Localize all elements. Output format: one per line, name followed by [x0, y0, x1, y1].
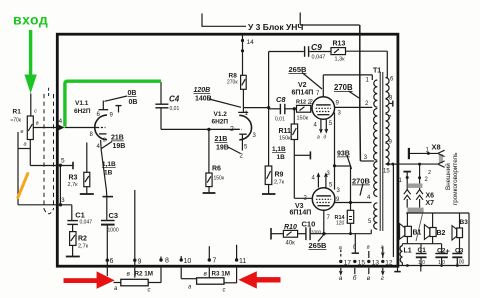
svg-text:0,01: 0,01 — [170, 106, 180, 112]
svg-text:С2: С2 — [437, 248, 446, 255]
svg-text:19В: 19В — [113, 143, 126, 150]
svg-text:С1: С1 — [75, 211, 85, 220]
svg-text:в: в — [204, 271, 208, 278]
svg-text:с: с — [34, 109, 37, 115]
svg-text:14: 14 — [247, 39, 255, 46]
svg-text:2: 2 — [428, 170, 431, 176]
svg-text:R2 1М: R2 1М — [135, 271, 154, 278]
svg-text:2,7к: 2,7к — [68, 182, 79, 188]
svg-text:R9: R9 — [275, 172, 284, 179]
svg-text:150к: 150к — [214, 176, 225, 182]
svg-text:120: 120 — [336, 221, 345, 227]
svg-text:15: 15 — [383, 169, 390, 175]
svg-text:с: с — [148, 288, 151, 294]
svg-text:Х6: Х6 — [426, 193, 435, 200]
svg-text:150к: 150к — [297, 116, 309, 122]
svg-text:21В: 21В — [111, 135, 124, 142]
svg-text:Т1: Т1 — [373, 68, 381, 75]
svg-text:7: 7 — [213, 258, 217, 265]
svg-text:8: 8 — [165, 258, 169, 265]
svg-text:270В: 270В — [352, 177, 371, 186]
svg-text:3300: 3300 — [311, 230, 322, 235]
svg-text:140В: 140В — [195, 96, 212, 103]
svg-text:270В: 270В — [334, 83, 353, 92]
svg-text:R3 1М: R3 1М — [212, 271, 231, 278]
svg-text:6Н2П: 6Н2П — [74, 108, 91, 115]
svg-text:0,047: 0,047 — [312, 55, 326, 61]
svg-text:2: 2 — [230, 126, 234, 133]
svg-text:6П14П: 6П14П — [290, 210, 312, 217]
svg-text:В1: В1 — [413, 230, 422, 237]
svg-text:6П14П: 6П14П — [292, 90, 314, 97]
svg-text:15: 15 — [358, 260, 366, 267]
svg-text:1,3к: 1,3к — [335, 57, 346, 63]
svg-text:+: + — [446, 249, 450, 256]
svg-text:а: а — [339, 275, 343, 282]
svg-text:1,0: 1,0 — [418, 260, 425, 266]
svg-text:270к: 270к — [227, 80, 238, 86]
svg-text:а: а — [317, 135, 320, 141]
svg-text:0,047: 0,047 — [80, 220, 93, 226]
svg-text:Х8: Х8 — [432, 143, 441, 152]
svg-text:6Н2П: 6Н2П — [212, 119, 229, 126]
svg-text:R12: R12 — [296, 100, 306, 106]
svg-text:в: в — [36, 121, 39, 127]
svg-text:1В: 1В — [277, 154, 286, 161]
svg-text:R10: R10 — [284, 224, 297, 231]
svg-text:12: 12 — [385, 260, 393, 267]
svg-text:≈70к: ≈70к — [11, 118, 22, 124]
svg-text:С9: С9 — [311, 42, 322, 52]
svg-text:б: б — [353, 274, 357, 282]
svg-text:С1: С1 — [418, 247, 427, 254]
svg-text:вход: вход — [13, 12, 48, 28]
svg-text:19В: 19В — [216, 145, 229, 152]
svg-text:R11: R11 — [279, 128, 292, 135]
svg-text:5: 5 — [61, 158, 65, 165]
svg-text:д: д — [324, 135, 327, 141]
svg-text:13: 13 — [372, 260, 380, 267]
svg-text:громкоговоритель: громкоговоритель — [452, 152, 459, 205]
svg-text:В2: В2 — [437, 230, 446, 237]
svg-text:V2: V2 — [298, 82, 307, 89]
svg-text:1000: 1000 — [108, 228, 119, 234]
svg-text:R13: R13 — [333, 41, 346, 48]
svg-text:6: 6 — [110, 258, 114, 265]
svg-text:1В: 1В — [104, 170, 113, 177]
svg-text:У 3 Блок УНЧ: У 3 Блок УНЧ — [248, 22, 303, 32]
svg-text:R3: R3 — [69, 175, 78, 182]
svg-text:2,7к: 2,7к — [78, 244, 89, 250]
svg-text:С3: С3 — [455, 248, 464, 255]
svg-text:17: 17 — [344, 260, 352, 267]
svg-text:V1.2: V1.2 — [214, 111, 228, 118]
svg-text:0,01: 0,01 — [275, 117, 285, 123]
svg-text:10: 10 — [184, 258, 192, 265]
svg-text:в: в — [367, 275, 371, 282]
svg-text:С4: С4 — [169, 95, 180, 104]
svg-text:93В: 93В — [337, 151, 350, 158]
svg-text:С3: С3 — [109, 211, 119, 220]
svg-text:2: 2 — [103, 138, 106, 144]
svg-text:1,1В: 1,1В — [102, 161, 116, 168]
svg-text:1,0: 1,0 — [438, 260, 445, 266]
svg-text:1,1В: 1,1В — [272, 146, 286, 153]
svg-text:а: а — [24, 142, 27, 148]
svg-text:В3: В3 — [460, 219, 469, 226]
svg-text:40к: 40к — [286, 241, 296, 247]
svg-text:Х7: Х7 — [426, 200, 435, 207]
svg-text:100: 100 — [456, 260, 465, 266]
svg-text:11: 11 — [239, 258, 246, 265]
svg-text:R6: R6 — [212, 166, 221, 173]
svg-text:Внешний: Внешний — [444, 163, 452, 190]
svg-text:150к: 150к — [279, 136, 291, 142]
svg-text:0В: 0В — [129, 99, 138, 106]
svg-text:0В: 0В — [128, 90, 137, 97]
svg-text:265В: 265В — [289, 65, 308, 74]
svg-text:V1.1: V1.1 — [75, 100, 89, 107]
svg-text:е: е — [21, 129, 24, 135]
svg-text:21В: 21В — [215, 136, 228, 143]
svg-text:265В: 265В — [309, 241, 328, 250]
svg-text:R2: R2 — [78, 236, 87, 243]
svg-text:R8: R8 — [229, 73, 238, 80]
svg-text:2,7к: 2,7к — [274, 180, 285, 186]
svg-text:9: 9 — [138, 259, 142, 266]
svg-text:в: в — [127, 271, 131, 278]
svg-text:4: 4 — [59, 118, 63, 125]
svg-text:г: г — [381, 245, 384, 251]
svg-text:в: в — [367, 245, 370, 251]
svg-text:L1: L1 — [404, 248, 412, 255]
svg-text:3: 3 — [61, 197, 65, 204]
svg-text:с: с — [223, 288, 226, 294]
svg-text:С10: С10 — [302, 220, 316, 229]
svg-text:а: а — [339, 245, 342, 251]
svg-text:R1: R1 — [13, 109, 22, 116]
svg-text:120В: 120В — [194, 87, 211, 94]
svg-text:С8: С8 — [276, 95, 286, 104]
